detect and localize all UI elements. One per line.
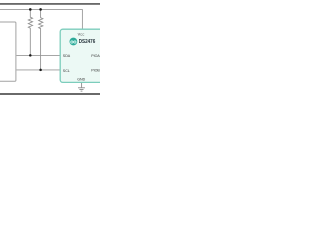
svg-text:PIOB: PIOB <box>91 69 100 73</box>
svg-text:VCC: VCC <box>78 33 85 37</box>
svg-text:SDA: SDA <box>63 54 71 58</box>
svg-text:PIOA: PIOA <box>91 54 100 58</box>
svg-text:SCL: SCL <box>63 69 70 73</box>
svg-text:DS2476: DS2476 <box>79 39 96 46</box>
svg-text:GND: GND <box>77 78 85 82</box>
